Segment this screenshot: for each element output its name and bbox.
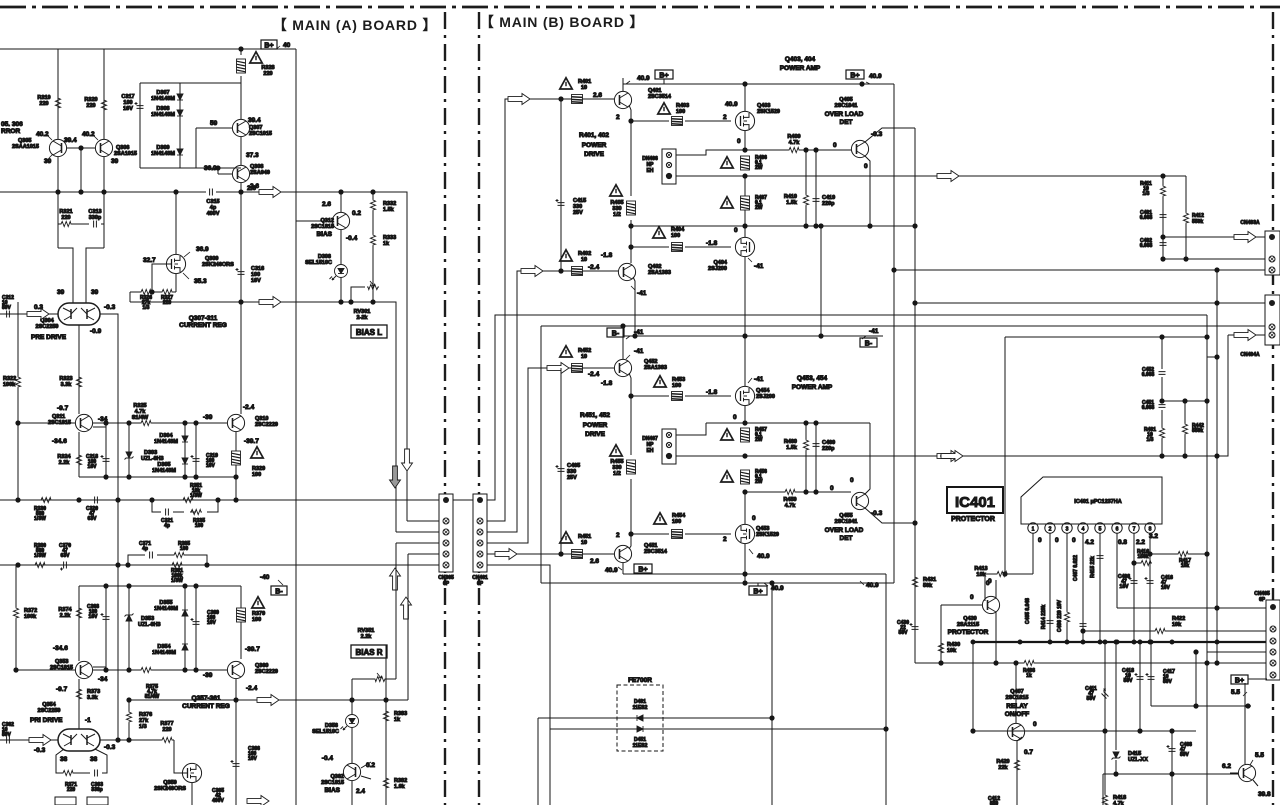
wire long rail y500 to CN305 bbox=[0, 498, 473, 502]
capacitor C402 bbox=[1140, 236, 1167, 259]
svg-text:2.2: 2.2 bbox=[1136, 539, 1145, 546]
svg-text:-41: -41 bbox=[637, 290, 647, 297]
svg-text:1N4148M: 1N4148M bbox=[154, 439, 178, 445]
transistor Q451 bbox=[605, 534, 668, 574]
svg-text:40.2: 40.2 bbox=[36, 131, 49, 138]
signal arrow input2 bbox=[521, 266, 543, 277]
Q354 emitter sub loop bbox=[56, 749, 107, 773]
svg-text:B+: B+ bbox=[638, 567, 647, 574]
svg-text:150k: 150k bbox=[1137, 554, 1148, 560]
svg-text:56k: 56k bbox=[923, 583, 933, 589]
svg-text:2W: 2W bbox=[755, 205, 763, 211]
wire Q452 emitter column x631 bbox=[629, 394, 633, 546]
capacitor C469 bbox=[813, 423, 836, 492]
wire DN407 pin1 jog bbox=[676, 423, 706, 435]
svg-text:S1/4W: S1/4W bbox=[132, 415, 149, 421]
transistor Q304 dual PRE DRIVE bbox=[31, 289, 116, 341]
diode D307 bbox=[151, 90, 183, 102]
signal arrow lower input1 bbox=[547, 363, 569, 374]
wire Q354 output right bbox=[100, 738, 174, 742]
svg-text:B-: B- bbox=[275, 589, 283, 596]
svg-text:1/3W: 1/3W bbox=[34, 553, 46, 559]
transistor Q401 bbox=[614, 78, 671, 121]
node BIAS R bbox=[351, 645, 387, 658]
resistor R442 bbox=[1182, 401, 1204, 456]
board frame right border bbox=[1272, 12, 1274, 805]
svg-text:2SC1015: 2SC1015 bbox=[249, 131, 272, 137]
wire to CN403A pin2 bbox=[1161, 257, 1266, 261]
svg-text:0: 0 bbox=[833, 142, 837, 149]
transistor Q354 dual PRI DRIVE bbox=[30, 702, 116, 763]
svg-text:-1: -1 bbox=[85, 717, 91, 724]
svg-text:1N4148M: 1N4148M bbox=[152, 650, 176, 656]
wire Q304 emitter column bbox=[78, 325, 80, 414]
svg-text:RROR: RROR bbox=[1, 128, 20, 135]
svg-text:220: 220 bbox=[39, 101, 48, 107]
feedback loop top wire y337 bbox=[1005, 315, 1209, 652]
svg-text:-9.7: -9.7 bbox=[56, 686, 68, 693]
capacitor C415 bbox=[556, 99, 587, 271]
resistor R322 bbox=[3, 302, 21, 500]
resistor R457 fusible bbox=[741, 427, 768, 443]
svg-text:Q403, 404: Q403, 404 bbox=[785, 56, 816, 63]
svg-text:1: 1 bbox=[1032, 527, 1035, 533]
capacitor C430 bbox=[897, 620, 918, 636]
svg-text:16V: 16V bbox=[248, 756, 258, 762]
diode D309 bbox=[151, 145, 183, 157]
transistor Q308 bbox=[204, 152, 270, 192]
svg-text:-41: -41 bbox=[634, 348, 644, 355]
node B+ upper left bbox=[626, 70, 673, 84]
label R451 452 POWER DRIVE bbox=[580, 412, 610, 438]
component boxes cut at bottom edge bbox=[55, 797, 108, 805]
svg-text:3.3k: 3.3k bbox=[87, 695, 99, 701]
svg-text:2SC3514: 2SC3514 bbox=[644, 549, 668, 555]
svg-text:R414 220k: R414 220k bbox=[1041, 605, 1047, 630]
label Q453 454 POWER AMP bbox=[792, 375, 833, 391]
transistor Q360 bbox=[203, 646, 278, 702]
svg-text:0.7: 0.7 bbox=[1024, 749, 1033, 756]
svg-text:0: 0 bbox=[864, 163, 868, 170]
svg-text:-41: -41 bbox=[754, 263, 764, 270]
resistor R385 bbox=[173, 541, 190, 558]
svg-text:BIAS L: BIAS L bbox=[356, 328, 382, 337]
signal arrow bottom edge bbox=[247, 796, 269, 805]
svg-text:100: 100 bbox=[252, 472, 261, 478]
signal arrow long output bbox=[937, 171, 959, 182]
svg-text:10: 10 bbox=[581, 354, 587, 360]
svg-text:36.9: 36.9 bbox=[196, 246, 209, 253]
signal arrow Q354 bbox=[29, 735, 51, 746]
svg-text:-41: -41 bbox=[754, 376, 764, 383]
svg-text:C407 0.022: C407 0.022 bbox=[1073, 555, 1079, 581]
svg-text:16V: 16V bbox=[1161, 585, 1171, 591]
transistor Q452 bbox=[614, 326, 667, 396]
wire pin4 drop bbox=[1080, 533, 1087, 642]
svg-text:DET: DET bbox=[840, 119, 853, 126]
resistor R373 bbox=[76, 679, 100, 729]
svg-text:400V: 400V bbox=[207, 211, 220, 217]
svg-text:6P: 6P bbox=[443, 581, 450, 587]
svg-text:OVER LOAD: OVER LOAD bbox=[825, 111, 864, 118]
svg-text:100k: 100k bbox=[3, 382, 16, 388]
transistor Q454 MOSFET bbox=[733, 336, 775, 423]
wire pin7 drop C408 bbox=[1118, 533, 1137, 642]
R321 C313 loop bbox=[58, 192, 104, 303]
capacitor C319 bbox=[191, 423, 219, 477]
resistor R416 bbox=[1132, 549, 1152, 566]
warn triangle R453 bbox=[654, 376, 685, 389]
label Q307-311 current reg bbox=[179, 315, 227, 329]
signal arrow right y302 bbox=[259, 297, 281, 308]
capacitor C318 bbox=[86, 423, 109, 477]
wire B+ rail y574 bbox=[623, 572, 886, 576]
svg-text:SEL1510C: SEL1510C bbox=[312, 729, 339, 735]
svg-text:16V: 16V bbox=[206, 463, 216, 469]
node B+ top A bbox=[261, 40, 291, 50]
svg-text:6: 6 bbox=[1116, 527, 1119, 533]
svg-text:0.2: 0.2 bbox=[352, 210, 361, 217]
svg-text:100: 100 bbox=[672, 519, 681, 525]
svg-text:POWER: POWER bbox=[582, 142, 607, 149]
svg-text:1N4148M: 1N4148M bbox=[151, 96, 175, 102]
resistor R380 bbox=[34, 543, 46, 568]
svg-text:2.6: 2.6 bbox=[590, 558, 599, 565]
svg-text:IC401 μPC1237HA: IC401 μPC1237HA bbox=[1074, 499, 1121, 505]
svg-text:2SA1383: 2SA1383 bbox=[644, 365, 667, 371]
svg-text:38: 38 bbox=[60, 756, 68, 763]
wire lower rail y226 bbox=[629, 224, 915, 228]
connector CN305 bbox=[438, 494, 454, 587]
capacitor C417 bbox=[1146, 642, 1252, 708]
svg-text:100k: 100k bbox=[24, 614, 37, 620]
svg-text:UZL-XX: UZL-XX bbox=[1128, 757, 1148, 763]
svg-text:-0.4: -0.4 bbox=[322, 755, 334, 762]
svg-text:330p: 330p bbox=[89, 215, 102, 221]
resistor R405 fusible bbox=[610, 200, 635, 218]
resistor R408 bbox=[1023, 660, 1035, 679]
label R415 rotated bbox=[1090, 556, 1096, 578]
svg-text:Q453, 454: Q453, 454 bbox=[797, 375, 828, 382]
svg-text:4: 4 bbox=[1082, 527, 1085, 533]
wire pin3 drop bbox=[1064, 533, 1069, 642]
svg-text:-34: -34 bbox=[98, 676, 108, 683]
svg-text:40.9: 40.9 bbox=[866, 582, 879, 589]
svg-text:-39: -39 bbox=[203, 414, 213, 421]
transistor Q307 bbox=[210, 117, 272, 137]
wire mid rail y192 bbox=[0, 190, 407, 521]
node B- lower right bbox=[860, 328, 879, 348]
capacitor C315 bbox=[206, 189, 219, 218]
svg-text:-41: -41 bbox=[869, 328, 879, 335]
svg-text:16V: 16V bbox=[207, 620, 217, 626]
svg-text:1k: 1k bbox=[394, 717, 401, 723]
svg-text:BIAS: BIAS bbox=[316, 231, 332, 238]
resistor R329 fusible bbox=[232, 447, 266, 478]
resistor R456 fusible bbox=[741, 469, 768, 485]
resistor R323 bbox=[59, 376, 81, 388]
svg-text:B-: B- bbox=[612, 331, 620, 338]
resistor R371 bbox=[62, 770, 77, 793]
wire B+ to Q408 bbox=[1244, 683, 1246, 764]
resistor R460 bbox=[784, 423, 809, 492]
warn triangle R402 bbox=[560, 250, 591, 263]
wire Q304 input bbox=[0, 314, 118, 740]
diode D355 bbox=[154, 586, 188, 670]
svg-text:25V: 25V bbox=[567, 475, 577, 481]
svg-text:39: 39 bbox=[44, 158, 52, 165]
svg-text:CN404A: CN404A bbox=[1240, 352, 1260, 358]
svg-text:32.7: 32.7 bbox=[143, 257, 156, 264]
svg-text:16V: 16V bbox=[251, 278, 261, 284]
svg-text:51/4W: 51/4W bbox=[145, 694, 160, 700]
resistor R372 bbox=[13, 565, 37, 670]
diode D354 bbox=[152, 644, 188, 656]
svg-text:ON/OFF: ON/OFF bbox=[1005, 711, 1030, 718]
transistor Q405 OVER LOAD DET bbox=[825, 97, 915, 226]
svg-text:C406 220 10V: C406 220 10V bbox=[1057, 599, 1063, 632]
svg-text:220p: 220p bbox=[822, 201, 835, 207]
diode D451 bbox=[633, 726, 648, 749]
wire CN401 pin6 to FE700R net bbox=[487, 565, 550, 729]
wire output drop x772 bbox=[770, 583, 774, 805]
node B+ lower left bbox=[634, 564, 652, 574]
svg-text:2.6: 2.6 bbox=[250, 183, 259, 190]
resistor R379 fusible bbox=[237, 600, 266, 640]
svg-text:0: 0 bbox=[1055, 537, 1059, 544]
svg-text:SEL1510C: SEL1510C bbox=[305, 260, 332, 266]
svg-text:16V: 16V bbox=[1120, 584, 1130, 590]
svg-text:FE700R: FE700R bbox=[628, 677, 652, 684]
wire D451 net bbox=[550, 729, 886, 805]
resistor R377 bbox=[160, 721, 173, 743]
resistor R454 fusible bbox=[672, 530, 683, 539]
svg-text:PROTECTOR: PROTECTOR bbox=[951, 516, 995, 523]
svg-text:59: 59 bbox=[210, 120, 218, 127]
svg-text:IC401: IC401 bbox=[955, 494, 995, 511]
svg-text:2SAA1015: 2SAA1015 bbox=[12, 144, 39, 150]
svg-text:50V: 50V bbox=[1087, 696, 1097, 702]
svg-text:2: 2 bbox=[616, 114, 620, 121]
node B- A board bbox=[271, 586, 287, 596]
wire ground bus y642 thick bbox=[971, 640, 1267, 644]
resistor R431 bbox=[912, 576, 936, 589]
resistor R422 bbox=[1081, 616, 1267, 634]
node B- lower left bbox=[607, 328, 644, 339]
svg-text:EH: EH bbox=[647, 448, 654, 454]
wire Q405 base y150 bbox=[743, 142, 851, 152]
svg-text:1/3W: 1/3W bbox=[190, 493, 202, 499]
svg-text:-9.7: -9.7 bbox=[57, 405, 69, 412]
label R414 rotated bbox=[1041, 605, 1047, 630]
resistor R328 fusible bbox=[237, 47, 275, 77]
svg-text:50V: 50V bbox=[2, 732, 12, 738]
svg-text:PRI DRIVE: PRI DRIVE bbox=[30, 717, 63, 724]
transistor Q403 MOSFET bbox=[735, 84, 780, 150]
diode D308 bbox=[151, 106, 183, 118]
svg-text:2SC1815: 2SC1815 bbox=[50, 665, 73, 671]
svg-text:5: 5 bbox=[1099, 527, 1102, 533]
wire rail y423 bbox=[706, 421, 870, 425]
trimmer RV301 bbox=[351, 281, 379, 321]
svg-text:0: 0 bbox=[850, 477, 854, 484]
svg-text:C405 0.048: C405 0.048 bbox=[1025, 598, 1031, 624]
transistor Q404 MOSFET bbox=[708, 176, 764, 336]
svg-text:2W: 2W bbox=[755, 479, 763, 485]
svg-text:5.5: 5.5 bbox=[1255, 752, 1264, 759]
warn triangle R456 bbox=[721, 471, 733, 482]
svg-text:1/3: 1/3 bbox=[1147, 437, 1154, 443]
svg-text:2SC2229: 2SC2229 bbox=[255, 669, 278, 675]
svg-text:7: 7 bbox=[1133, 527, 1136, 533]
transistor Q312 BIAS bbox=[296, 192, 361, 264]
svg-text:B+: B+ bbox=[753, 589, 762, 596]
svg-text:2: 2 bbox=[1049, 527, 1052, 533]
svg-text:1.5k: 1.5k bbox=[786, 200, 798, 206]
svg-text:6P: 6P bbox=[1259, 597, 1266, 603]
svg-text:B+: B+ bbox=[659, 73, 668, 80]
svg-text:2SC1841: 2SC1841 bbox=[835, 103, 858, 109]
wire x821 link bbox=[819, 224, 823, 336]
svg-text:0.068: 0.068 bbox=[1140, 215, 1153, 221]
svg-text:-2.4: -2.4 bbox=[588, 264, 600, 271]
wire relay base y731 bbox=[971, 642, 1196, 733]
resistor R412 bbox=[1183, 176, 1204, 259]
svg-text:22k: 22k bbox=[998, 765, 1008, 771]
diode box FE700R bbox=[617, 677, 663, 751]
signal arrow lower input2 bbox=[495, 549, 517, 560]
connector CN401 bbox=[472, 494, 488, 587]
resistor R430 bbox=[938, 605, 960, 663]
C321 R335 sub loop bbox=[152, 500, 218, 512]
wire long vertical x296 bbox=[295, 49, 297, 805]
signal arrow right y192 bbox=[250, 183, 281, 198]
svg-text:0.068: 0.068 bbox=[1140, 243, 1153, 249]
capacitor C411 bbox=[1085, 642, 1111, 794]
svg-text:0.2: 0.2 bbox=[366, 762, 375, 769]
connector CN404A bbox=[1240, 295, 1280, 358]
svg-text:1N4148M: 1N4148M bbox=[154, 606, 178, 612]
arrow down hollow bbox=[402, 449, 413, 471]
resistor R333 bbox=[370, 234, 396, 302]
svg-text:40.9: 40.9 bbox=[757, 553, 770, 560]
svg-text:B+: B+ bbox=[264, 43, 273, 50]
transistor Q408 bbox=[1222, 752, 1271, 798]
capacitor C316 bbox=[236, 266, 265, 284]
svg-text:550k: 550k bbox=[1192, 428, 1203, 434]
transistor Q430 PROTECTOR bbox=[941, 580, 1000, 663]
zener D303 bbox=[125, 423, 164, 477]
svg-text:0: 0 bbox=[737, 138, 741, 145]
capacitor C317 bbox=[121, 94, 143, 112]
svg-text:220: 220 bbox=[163, 300, 172, 306]
svg-text:3: 3 bbox=[1066, 527, 1069, 533]
svg-text:-0.3: -0.3 bbox=[34, 747, 46, 754]
diode D401 bbox=[633, 699, 648, 721]
svg-text:-2.4: -2.4 bbox=[246, 685, 258, 692]
svg-text:B-: B- bbox=[865, 341, 873, 348]
capacitor C452 bbox=[1142, 337, 1166, 401]
svg-text:-39.7: -39.7 bbox=[244, 438, 259, 445]
label C406 rotated bbox=[1057, 599, 1063, 632]
svg-text:1/3: 1/3 bbox=[139, 724, 147, 730]
svg-text:50V: 50V bbox=[1163, 679, 1173, 685]
capacitor C365 bbox=[212, 788, 224, 804]
svg-text:POWER: POWER bbox=[583, 422, 608, 429]
svg-text:220: 220 bbox=[263, 71, 272, 77]
resistor R321 bbox=[59, 209, 72, 227]
warn triangle R452 bbox=[560, 346, 591, 360]
resistor R320 bbox=[84, 97, 106, 111]
svg-text:-2.4: -2.4 bbox=[588, 371, 600, 378]
svg-text:220: 220 bbox=[86, 103, 95, 109]
svg-text:100: 100 bbox=[252, 617, 261, 623]
svg-text:2: 2 bbox=[616, 532, 620, 539]
svg-text:40.9: 40.9 bbox=[605, 567, 618, 574]
resistor R403 fusible bbox=[672, 117, 683, 126]
wire BIAS R column x386 bbox=[385, 645, 387, 805]
svg-text:10k: 10k bbox=[947, 648, 957, 654]
svg-text:0: 0 bbox=[830, 485, 834, 492]
wire cell2 top rail y586 bbox=[79, 584, 241, 661]
resistor R404 fusible bbox=[672, 243, 683, 252]
resistor R325 bbox=[132, 403, 152, 426]
warn triangle R457 bbox=[721, 429, 733, 440]
svg-text:-2.4: -2.4 bbox=[243, 404, 255, 411]
svg-text:CURRENT REG: CURRENT REG bbox=[182, 703, 230, 710]
svg-text:1/2: 1/2 bbox=[613, 212, 621, 218]
svg-text:DET: DET bbox=[840, 535, 853, 542]
resistor R461 bbox=[1144, 427, 1165, 456]
svg-text:1/3W: 1/3W bbox=[171, 578, 183, 584]
wire CN305 pin5 stub bbox=[408, 554, 439, 700]
svg-text:220: 220 bbox=[67, 787, 76, 793]
wire gate1 y121 bbox=[631, 101, 738, 121]
svg-text:220: 220 bbox=[162, 727, 171, 733]
svg-text:2.6: 2.6 bbox=[322, 201, 331, 208]
capacitor C371 bbox=[139, 541, 152, 559]
svg-text:15k: 15k bbox=[1181, 563, 1190, 569]
C371 R385 sub loop bbox=[128, 555, 207, 565]
resistor R324 bbox=[57, 432, 81, 477]
svg-text:【 MAIN (A) BOARD 】: 【 MAIN (A) BOARD 】 bbox=[273, 17, 438, 33]
svg-text:4p: 4p bbox=[142, 546, 148, 552]
label Q403 404 POWER AMP bbox=[780, 56, 821, 72]
capacitor C419 bbox=[813, 150, 836, 226]
board frame MAIN B left border bbox=[478, 12, 480, 805]
wire pin1 to R413 bbox=[985, 533, 1033, 601]
svg-text:39.8: 39.8 bbox=[1258, 791, 1271, 798]
resistor R330 bbox=[34, 497, 52, 522]
capacitor C312 input bbox=[2, 295, 14, 318]
svg-text:B+: B+ bbox=[850, 73, 859, 80]
board frame top border bbox=[0, 6, 1280, 9]
wire Q455 collector drop x915 bbox=[913, 303, 917, 663]
transistor Q311 bbox=[16, 405, 108, 445]
svg-text:39: 39 bbox=[111, 158, 119, 165]
warn triangle R406 bbox=[721, 157, 733, 168]
svg-text:2SC2229: 2SC2229 bbox=[255, 422, 278, 428]
svg-text:330p: 330p bbox=[91, 787, 102, 793]
svg-text:EH: EH bbox=[647, 168, 654, 174]
svg-text:2.2k: 2.2k bbox=[60, 613, 72, 619]
svg-text:2.6: 2.6 bbox=[593, 92, 602, 99]
label C407 rotated bbox=[1073, 555, 1079, 581]
svg-text:50V: 50V bbox=[899, 630, 909, 636]
svg-text:RELAY: RELAY bbox=[1006, 703, 1028, 710]
svg-text:-1.8: -1.8 bbox=[601, 252, 613, 259]
signal arrow B- to CN404A bbox=[1228, 330, 1267, 341]
